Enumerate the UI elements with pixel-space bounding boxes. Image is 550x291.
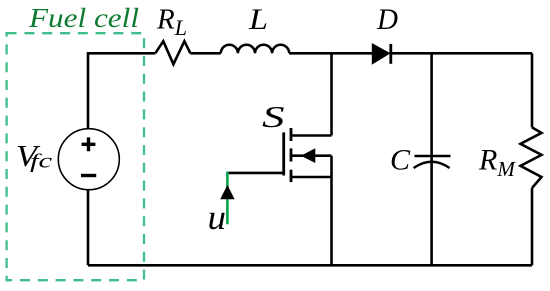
gate drive input u (green lead): [226, 172, 229, 225]
capacitor C: [414, 53, 451, 265]
svg-text:S: S: [262, 99, 285, 134]
svg-text:RL: RL: [156, 3, 187, 40]
cap top lead: [430, 53, 433, 161]
transistor S (MOSFET): [284, 128, 332, 182]
svg-text:C: C: [390, 144, 411, 177]
cap bottom lead: [430, 162, 433, 265]
wire right branch bottom: [531, 188, 534, 265]
voltage source Vfc: [58, 129, 119, 190]
wire between RL and L: [190, 52, 220, 55]
source stub: [291, 176, 332, 179]
body arrow line: [291, 154, 332, 157]
gate drive arrowhead: [221, 186, 234, 199]
inductor L: [221, 45, 289, 54]
wire gate to u corner: [227, 172, 283, 175]
svg-text:Fuel cell: Fuel cell: [28, 2, 140, 33]
wire top-left from source to RL: [88, 53, 155, 129]
wire right branch top: [531, 53, 534, 127]
wire bottom rail: [88, 264, 532, 267]
svg-text:fc: fc: [30, 150, 52, 172]
fuel cell boundary (green dashed box): [7, 33, 144, 280]
resistor RM: [521, 127, 542, 188]
svg-text:L: L: [248, 3, 268, 36]
wire source bottom to bottom rail: [87, 190, 90, 266]
body arrowhead: [302, 149, 315, 162]
diode D: [372, 44, 391, 64]
resistor RL: [155, 41, 190, 64]
wire drain up to top rail: [330, 53, 333, 135]
channel segment top: [290, 128, 293, 141]
drain stub: [291, 134, 332, 137]
wire diode to top-right corner: [391, 52, 532, 55]
cap straight plate: [415, 155, 451, 158]
svg-text:RM: RM: [478, 144, 516, 182]
cap curved plate: [414, 162, 450, 168]
wire between L and diode: [289, 52, 372, 55]
channel segment middle: [290, 148, 293, 161]
wire source down to bottom rail: [330, 156, 333, 266]
svg-text:D: D: [376, 3, 398, 36]
channel segment bottom: [290, 170, 293, 182]
gate bar: [282, 132, 285, 175]
svg-text:u: u: [208, 198, 227, 237]
